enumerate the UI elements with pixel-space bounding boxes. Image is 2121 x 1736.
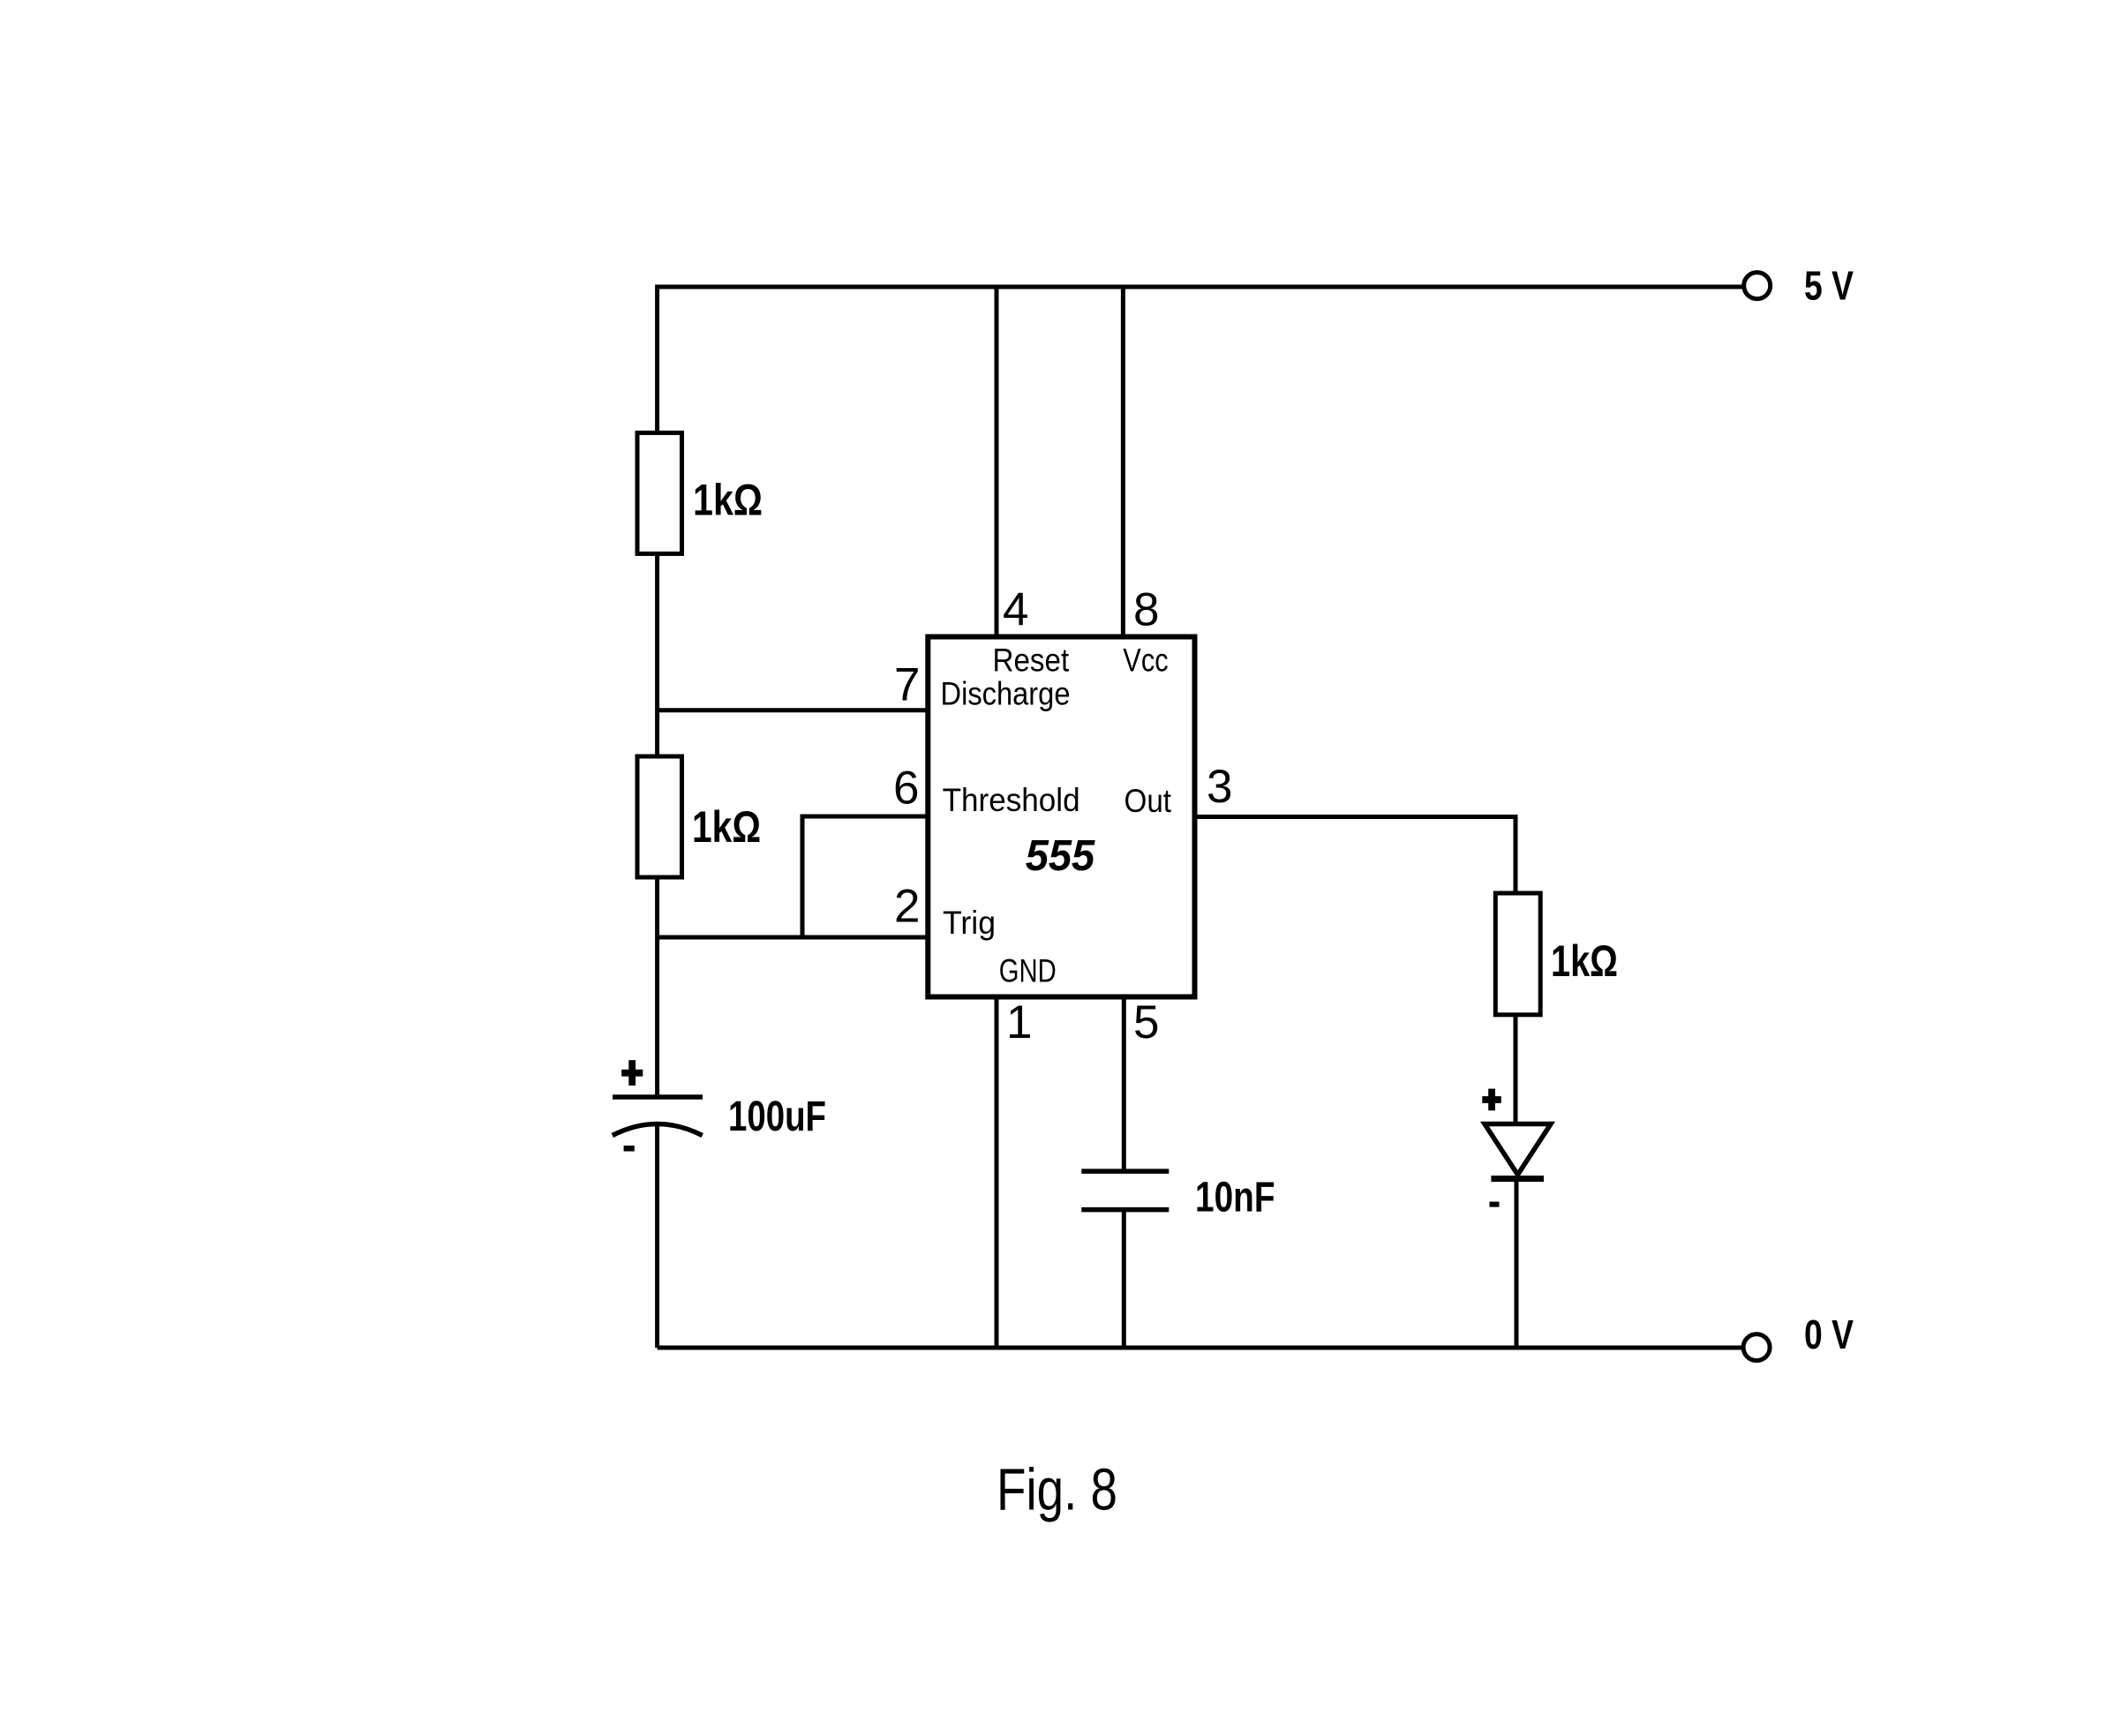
- wire pin3 out horizontal: [1195, 815, 1516, 819]
- svg-text:100uF: 100uF: [728, 1093, 826, 1140]
- wire jog pin6 down to trig net: [801, 815, 805, 938]
- label LED plus: [1482, 1089, 1501, 1111]
- wire C2 bottom to 0V rail: [1122, 1210, 1126, 1348]
- wire pin6 threshold stub: [802, 815, 928, 819]
- svg-text:Out: Out: [1124, 783, 1172, 819]
- diode LED D1 triangle: [1485, 1124, 1551, 1176]
- wire pin4 to top rail: [995, 287, 999, 637]
- svg-text:5: 5: [1133, 996, 1159, 1048]
- svg-text:8: 8: [1133, 584, 1159, 636]
- resistor R2 1k: [637, 756, 682, 877]
- wire pin1 down to 0V rail: [995, 997, 999, 1349]
- wire C1 bottom to 0V rail: [655, 1124, 659, 1348]
- wire pin2 trig to left rail: [658, 936, 928, 940]
- svg-text:0 V: 0 V: [1804, 1311, 1854, 1357]
- svg-text:3: 3: [1207, 761, 1232, 813]
- capacitor C1 100uF top plate: [613, 1094, 703, 1100]
- svg-text:Reset: Reset: [993, 643, 1070, 679]
- terminal 0V: [1743, 1334, 1770, 1361]
- svg-text:5 V: 5 V: [1804, 263, 1854, 309]
- IC U1 555 box: [928, 637, 1194, 997]
- capacitor C1 100uF curved plate: [613, 1124, 703, 1136]
- capacitor C2 10nF bottom plate: [1081, 1207, 1169, 1213]
- wire out corner down to R3: [1514, 815, 1518, 895]
- svg-text:Trig: Trig: [943, 905, 996, 941]
- wire LED cathode to 0V rail: [1515, 1176, 1519, 1348]
- wire bottom 0V rail: [658, 1346, 1744, 1350]
- svg-text:GND: GND: [999, 952, 1057, 988]
- svg-text:1: 1: [1006, 996, 1032, 1048]
- svg-text:Fig. 8: Fig. 8: [997, 1456, 1117, 1522]
- wire R2 bottom to C1 top: [655, 876, 659, 1097]
- wire top +5V rail: [658, 285, 1743, 289]
- label LED minus: [1490, 1202, 1500, 1207]
- label C1 plus: [621, 1060, 643, 1086]
- wire R1 bottom to R2 top: [655, 552, 659, 758]
- wire pin8 to top rail: [1121, 287, 1125, 637]
- svg-text:555: 555: [1026, 832, 1095, 880]
- svg-text:1kΩ: 1kΩ: [692, 802, 761, 852]
- wire R3 bottom to LED anode: [1514, 1013, 1518, 1125]
- svg-text:10nF: 10nF: [1195, 1175, 1275, 1221]
- svg-text:1kΩ: 1kΩ: [1551, 936, 1618, 986]
- svg-text:Threshold: Threshold: [943, 782, 1080, 818]
- wire left rail: 5V rail to R1: [655, 285, 659, 435]
- resistor R1 1k: [637, 432, 682, 553]
- resistor R3 1k: [1495, 893, 1540, 1015]
- wire pin5 down to C2: [1122, 997, 1126, 1172]
- svg-text:1kΩ: 1kΩ: [693, 476, 763, 525]
- diode LED D1 cathode bar: [1491, 1176, 1544, 1182]
- terminal 5V: [1744, 273, 1771, 299]
- svg-text:7: 7: [894, 658, 920, 710]
- svg-text:6: 6: [893, 763, 919, 815]
- svg-text:4: 4: [1003, 584, 1028, 636]
- capacitor C2 10nF top plate: [1081, 1169, 1169, 1174]
- wire discharge pin7 to left rail: [658, 708, 928, 712]
- svg-text:Discharge: Discharge: [941, 675, 1071, 711]
- svg-text:Vcc: Vcc: [1123, 643, 1168, 679]
- label C1 minus: [624, 1146, 635, 1152]
- svg-text:2: 2: [894, 880, 920, 932]
